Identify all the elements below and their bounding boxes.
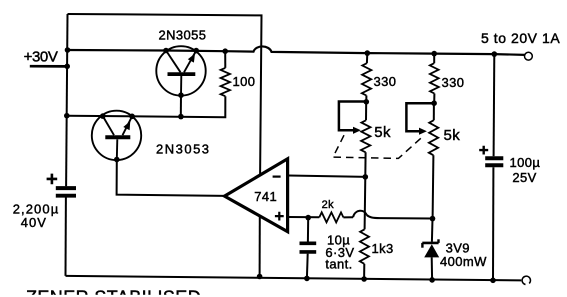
svg-text:2N3053: 2N3053 [156, 141, 211, 156]
svg-text:330: 330 [442, 75, 465, 90]
svg-text:741: 741 [254, 189, 277, 204]
svg-text:2N3055: 2N3055 [159, 27, 207, 42]
svg-text:330: 330 [374, 74, 397, 89]
svg-text:25V: 25V [512, 170, 536, 185]
svg-text:1k3: 1k3 [372, 241, 394, 256]
svg-text:100: 100 [233, 74, 256, 89]
svg-text:5k: 5k [374, 124, 391, 141]
svg-text:+30V: +30V [24, 49, 58, 66]
svg-text:5 to 20V 1A: 5 to 20V 1A [481, 30, 560, 46]
svg-text:2k: 2k [322, 199, 335, 211]
svg-text:400mW: 400mW [440, 254, 487, 269]
svg-text:tant.: tant. [325, 257, 352, 272]
svg-text:100µ: 100µ [510, 155, 541, 170]
svg-text:40V: 40V [21, 215, 47, 230]
svg-text:5k: 5k [444, 127, 461, 144]
